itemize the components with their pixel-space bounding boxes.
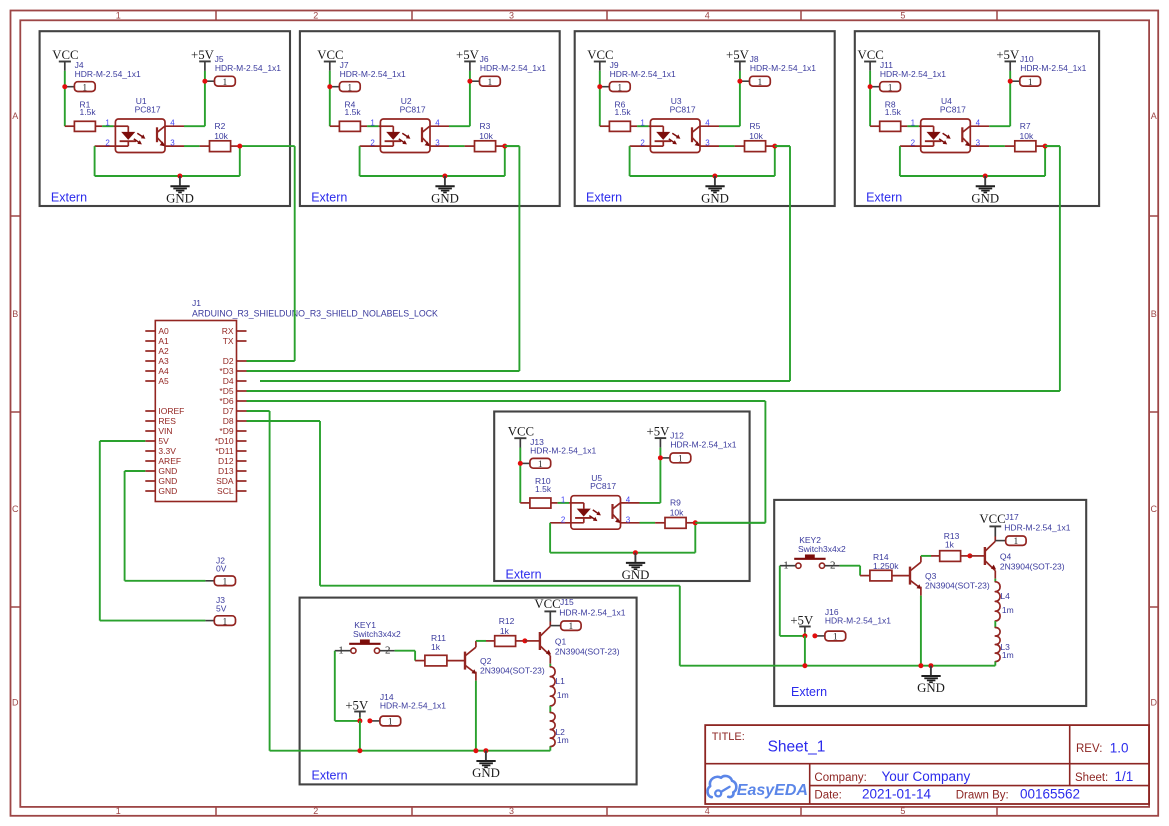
svg-text:1: 1 [116, 10, 121, 20]
svg-text:1: 1 [488, 78, 493, 88]
svg-text:*D9: *D9 [219, 426, 233, 436]
junction at GND [983, 174, 988, 179]
wire KEY1 pin 2 to R11 [395, 650, 416, 652]
resistor R1 1.5k [65, 125, 75, 127]
ground GND [485, 751, 487, 761]
wire L4 to L3 [994, 621, 996, 628]
svg-text:Company:: Company: [814, 772, 866, 784]
junction R to base node [522, 638, 527, 643]
svg-text:R12: R12 [499, 616, 515, 626]
junction J9 [597, 84, 602, 89]
junction at GND [712, 174, 717, 179]
junction J10 [1008, 79, 1013, 84]
svg-text:Switch3x4x2: Switch3x4x2 [798, 544, 846, 554]
junction R7 output node [1043, 144, 1048, 149]
optocoupler U4 PC817 [921, 119, 971, 153]
svg-text:1.5k: 1.5k [345, 107, 362, 117]
resistor R9 10k [655, 522, 665, 524]
header J16 HDR-M-2.54_1x1 pin 1 [815, 635, 825, 637]
wire R7 output [1045, 145, 1060, 147]
svg-text:5V: 5V [158, 436, 169, 446]
svg-text:Sheet_1: Sheet_1 [768, 739, 826, 756]
wire U4 pin 2 return loop [899, 146, 901, 176]
J1 pin TX [237, 340, 247, 342]
junction GND at rail [483, 748, 488, 753]
svg-text:5: 5 [900, 10, 905, 20]
svg-text:*D5: *D5 [219, 386, 233, 396]
svg-text:EasyEDA: EasyEDA [737, 782, 808, 799]
resistor R14 1.250k [860, 575, 870, 577]
wire net D3: U2/R3 output to J1 *D3 [505, 145, 520, 147]
wire VCC down to R4 [329, 71, 331, 126]
svg-text:R7: R7 [1020, 121, 1031, 131]
ground GND [444, 176, 446, 185]
wire R4 to U2 pin 1 [367, 125, 379, 127]
svg-text:TX: TX [223, 336, 234, 346]
svg-text:2N3904(SOT-23): 2N3904(SOT-23) [480, 666, 545, 676]
svg-text:Extern: Extern [791, 685, 827, 699]
svg-text:1k: 1k [431, 642, 441, 652]
svg-text:D8: D8 [223, 416, 234, 426]
wire L1 to L2 [549, 706, 551, 713]
J1 pin *D5 [237, 390, 247, 392]
svg-text:HDR-M-2.54_1x1: HDR-M-2.54_1x1 [670, 440, 736, 450]
header J4 HDR-M-2.54_1x1 pin 1 [65, 86, 75, 88]
J1 pin A4 [145, 370, 155, 372]
wire net 5V: J1 5V to J3 [100, 440, 146, 442]
svg-text:1.5k: 1.5k [615, 107, 632, 117]
connector J1 ARDUINO_R3_SHIELDUNO_R3_SHIELD_NOLABELS_LOCK [155, 321, 236, 502]
svg-text:B: B [12, 309, 18, 319]
J1 pin GND [145, 470, 155, 472]
inductor L2 1m [550, 713, 555, 747]
transistor Q1 2N3904(SOT-23) [539, 632, 541, 650]
resistor R7 10k [1005, 145, 1015, 147]
J1 pin *D3 [237, 370, 247, 372]
wire net GND: J1 GND to J2 [125, 470, 146, 472]
optocoupler U3 PC817 [650, 119, 700, 153]
junction J7 [327, 84, 332, 89]
ground GND [984, 176, 986, 185]
svg-text:1: 1 [82, 83, 87, 93]
svg-text:C: C [12, 504, 19, 514]
svg-text:Switch3x4x2: Switch3x4x2 [353, 629, 401, 639]
svg-text:A1: A1 [158, 336, 169, 346]
wire U3 pin 2 return loop [629, 146, 631, 176]
svg-text:GND: GND [917, 681, 945, 695]
svg-text:2N3904(SOT-23): 2N3904(SOT-23) [925, 581, 990, 591]
transistor Q4 2N3904(SOT-23) [984, 547, 986, 565]
svg-text:+5V: +5V [345, 698, 369, 712]
wire U1 pin 2 return loop [94, 146, 96, 176]
wire VCC down to R10 [519, 448, 521, 503]
svg-text:A0: A0 [158, 326, 169, 336]
svg-text:*D11: *D11 [215, 446, 234, 456]
header J2 0V pin 1 [205, 580, 214, 582]
svg-text:VCC: VCC [534, 597, 560, 611]
wire +5V down to U3 pin 4 [739, 71, 741, 126]
svg-text:10k: 10k [214, 131, 228, 141]
svg-text:1: 1 [223, 78, 228, 88]
J1 pin D8 [237, 420, 247, 422]
svg-text:IOREF: IOREF [158, 406, 184, 416]
Extern box driver block 1 [300, 598, 637, 785]
J1 pin VIN [145, 430, 155, 432]
svg-text:1m: 1m [1002, 605, 1014, 615]
svg-text:ARDUINO_R3_SHIELDUNO_R3_SHIELD: ARDUINO_R3_SHIELDUNO_R3_SHIELD_NOLABELS_… [192, 308, 438, 318]
svg-text:0V: 0V [216, 564, 227, 574]
wire U5 pin 2 return loop [549, 523, 551, 553]
header J11 HDR-M-2.54_1x1 pin 1 [870, 86, 880, 88]
svg-text:R9: R9 [670, 498, 681, 508]
transistor Q2 2N3904(SOT-23) [464, 652, 466, 670]
svg-text:GND: GND [158, 476, 177, 486]
wire Q4 emitter to L4 [994, 571, 996, 579]
svg-text:5V: 5V [216, 603, 227, 613]
svg-text:1: 1 [888, 83, 893, 93]
wire +5V node to rail [359, 721, 361, 751]
svg-text:TITLE:: TITLE: [712, 731, 745, 743]
junction J4 [62, 84, 67, 89]
J1 pin A5 [145, 380, 155, 382]
header J17 HDR-M-2.54_1x1 pin 1 [995, 540, 1005, 542]
svg-text:C: C [1151, 504, 1158, 514]
svg-text:PC817: PC817 [670, 105, 696, 115]
junction Q3 emitter at rail [918, 663, 923, 668]
svg-text:PC817: PC817 [590, 481, 616, 491]
svg-text:2: 2 [561, 515, 566, 524]
junction J11 [868, 84, 873, 89]
J1 pin A0 [145, 330, 155, 332]
svg-text:1: 1 [569, 622, 574, 632]
wire KEY2 pin 1 to +5V node [779, 566, 781, 636]
svg-text:GND: GND [971, 191, 999, 205]
junction J8 [737, 79, 742, 84]
wire net D8: J1 D8 to KEY2 block rail [247, 420, 321, 422]
J1 pin A1 [145, 340, 155, 342]
junction +5V at rail [802, 663, 807, 668]
svg-text:1: 1 [678, 455, 683, 465]
header J8 HDR-M-2.54_1x1 pin 1 [740, 80, 750, 82]
wire VCC down to R1 [64, 71, 66, 126]
svg-text:1m: 1m [557, 690, 569, 700]
svg-text:AREF: AREF [158, 456, 181, 466]
wire R8 to U4 pin 1 [907, 125, 919, 127]
resistor R11 1k [415, 660, 425, 662]
svg-text:1: 1 [388, 718, 393, 728]
svg-text:4: 4 [626, 495, 631, 504]
svg-text:3: 3 [976, 139, 981, 148]
svg-text:2: 2 [911, 139, 916, 148]
J1 pin RX [237, 330, 247, 332]
svg-text:RX: RX [222, 326, 234, 336]
svg-text:1: 1 [223, 617, 228, 627]
svg-text:R2: R2 [215, 121, 226, 131]
wire KEY2 pin 2 to R14 [840, 565, 861, 567]
resistor R 1k between Q2 and Q1 [486, 640, 495, 642]
svg-text:J15: J15 [560, 597, 574, 607]
ground GND [714, 176, 716, 185]
wire +5V down to U5 pin 4 [659, 448, 661, 503]
svg-text:1: 1 [1028, 78, 1033, 88]
svg-text:D2: D2 [223, 356, 234, 366]
svg-text:1/1: 1/1 [1115, 769, 1134, 784]
svg-text:1: 1 [105, 119, 110, 128]
resistor R3 10k [465, 145, 475, 147]
svg-text:SCL: SCL [217, 486, 234, 496]
wire VCC down to R6 [599, 71, 601, 126]
svg-text:2021-01-14: 2021-01-14 [862, 786, 932, 801]
wire U2 pin 3 to R3 [449, 145, 465, 147]
svg-text:1: 1 [833, 633, 838, 643]
header J12 HDR-M-2.54_1x1 pin 1 [660, 457, 670, 459]
svg-text:GND: GND [431, 191, 459, 205]
J1 pin A2 [145, 350, 155, 352]
svg-text:HDR-M-2.54_1x1: HDR-M-2.54_1x1 [825, 616, 891, 626]
svg-text:4: 4 [435, 119, 440, 128]
svg-text:GND: GND [158, 486, 177, 496]
svg-text:D: D [12, 698, 19, 708]
wire U2 pin 2 return loop [359, 146, 361, 176]
transistor Q3 2N3904(SOT-23) [909, 567, 911, 585]
svg-text:D12: D12 [218, 456, 234, 466]
svg-text:1.5k: 1.5k [885, 107, 902, 117]
header J7 HDR-M-2.54_1x1 pin 1 [330, 86, 340, 88]
junction Q2 emitter at rail [473, 748, 478, 753]
svg-text:10k: 10k [479, 131, 493, 141]
svg-text:1.5k: 1.5k [535, 484, 552, 494]
svg-text:1.5k: 1.5k [80, 107, 97, 117]
Extern box opto block 4 [855, 31, 1099, 206]
Extern box opto block 3 [575, 31, 835, 206]
svg-text:1k: 1k [945, 540, 955, 550]
junction J14 [357, 718, 362, 723]
junction at GND [177, 174, 182, 179]
svg-text:D13: D13 [218, 466, 234, 476]
wire Q3 collector to R [920, 556, 922, 562]
resistor R10 1.5k [520, 502, 530, 504]
header J15 HDR-M-2.54_1x1 pin 1 [550, 625, 560, 627]
svg-text:A: A [12, 111, 18, 121]
svg-text:1: 1 [1014, 537, 1019, 547]
svg-text:VIN: VIN [158, 426, 172, 436]
J1 pin 5V [145, 440, 155, 442]
svg-text:1: 1 [347, 83, 352, 93]
svg-text:Extern: Extern [311, 191, 347, 205]
svg-text:A3: A3 [158, 356, 169, 366]
svg-text:4: 4 [705, 806, 710, 816]
wire R6 to U3 pin 1 [637, 125, 649, 127]
svg-text:D7: D7 [223, 406, 234, 416]
svg-text:B: B [1151, 309, 1157, 319]
svg-text:1: 1 [640, 119, 645, 128]
junction R2 output node [237, 144, 242, 149]
svg-text:Q3: Q3 [925, 571, 937, 581]
wire U4 pin 3 to R7 [989, 145, 1005, 147]
inductor L4 1m [995, 582, 1000, 621]
svg-text:4: 4 [976, 119, 981, 128]
wire Q2 collector to R [475, 641, 477, 647]
wire R2 output [240, 145, 295, 147]
wire Q2 emitter down to rail [475, 672, 477, 681]
J1 pin 3.3V [145, 450, 155, 452]
svg-text:PC817: PC817 [400, 105, 426, 115]
svg-text:Q2: Q2 [480, 656, 492, 666]
junction R to base node [967, 553, 972, 558]
svg-text:1: 1 [223, 578, 228, 588]
svg-text:10k: 10k [749, 131, 763, 141]
svg-text:1.0: 1.0 [1110, 741, 1129, 756]
wire U3 pin 3 to R5 [719, 145, 735, 147]
svg-text:HDR-M-2.54_1x1: HDR-M-2.54_1x1 [480, 63, 546, 73]
ground GND [930, 666, 932, 676]
svg-text:Extern: Extern [866, 191, 902, 205]
Extern box driver block 2 [774, 500, 1086, 706]
wire +5V down to U1 pin 4 [204, 71, 206, 126]
wire R10 to U5 pin 1 [558, 502, 570, 504]
junction R3 output node [502, 144, 507, 149]
EasyEDA logo [708, 776, 737, 797]
header J14 HDR-M-2.54_1x1 pin 1 [370, 720, 380, 722]
svg-text:Q4: Q4 [1000, 552, 1012, 562]
svg-text:HDR-M-2.54_1x1: HDR-M-2.54_1x1 [75, 69, 141, 79]
svg-text:GND: GND [701, 191, 729, 205]
J1 pin D7 [237, 410, 247, 412]
junction +5V at rail [357, 748, 362, 753]
wire L3 to rail [994, 662, 996, 666]
optocoupler U5 PC817 [571, 496, 621, 530]
svg-text:HDR-M-2.54_1x1: HDR-M-2.54_1x1 [340, 69, 406, 79]
svg-text:A4: A4 [158, 366, 169, 376]
junction at GND [633, 550, 638, 555]
svg-text:Extern: Extern [51, 191, 87, 205]
wire R9 output [695, 522, 765, 524]
svg-text:L1: L1 [555, 676, 565, 686]
J1 pin IOREF [145, 410, 155, 412]
svg-text:HDR-M-2.54_1x1: HDR-M-2.54_1x1 [530, 446, 596, 456]
J1 pin GND [145, 480, 155, 482]
svg-text:R5: R5 [750, 121, 761, 131]
svg-text:HDR-M-2.54_1x1: HDR-M-2.54_1x1 [1004, 522, 1070, 532]
junction at GND [442, 174, 447, 179]
header J6 HDR-M-2.54_1x1 pin 1 [470, 80, 480, 82]
svg-text:Drawn By:: Drawn By: [956, 789, 1009, 801]
wire net D2: U1/R2 output to J1 D2 [294, 146, 296, 361]
resistor R2 10k [200, 145, 210, 147]
wire U1 pin 3 to R2 [184, 145, 200, 147]
svg-text:SDA: SDA [216, 476, 234, 486]
ground GND [634, 553, 636, 562]
J1 pin D13 [237, 470, 247, 472]
J1 pin *D6 [237, 400, 247, 402]
svg-text:Q1: Q1 [555, 637, 567, 647]
J1 pin *D10 [237, 440, 247, 442]
svg-text:*D3: *D3 [219, 366, 233, 376]
junction J5 [202, 79, 207, 84]
svg-text:3: 3 [435, 139, 440, 148]
inductor L1 1m [550, 667, 555, 706]
svg-text:1: 1 [561, 495, 566, 504]
svg-text:Extern: Extern [586, 191, 622, 205]
wire L2 to rail [549, 747, 551, 751]
svg-text:1.250k: 1.250k [873, 561, 899, 571]
svg-text:2: 2 [370, 139, 375, 148]
J1 pin A3 [145, 360, 155, 362]
svg-text:2: 2 [313, 806, 318, 816]
svg-text:HDR-M-2.54_1x1: HDR-M-2.54_1x1 [1020, 63, 1086, 73]
J1 pin SDA [237, 480, 247, 482]
wire Q1 emitter to L1 [549, 656, 551, 664]
junction J6 [467, 79, 472, 84]
svg-text:3: 3 [626, 515, 631, 524]
svg-text:PC817: PC817 [135, 105, 161, 115]
svg-text:3: 3 [509, 10, 514, 20]
J1 pin AREF [145, 460, 155, 462]
svg-text:1: 1 [538, 460, 543, 470]
svg-text:GND: GND [158, 466, 177, 476]
wire emitter rail [680, 665, 996, 667]
J1 pin RES [145, 420, 155, 422]
J1 pin *D9 [237, 430, 247, 432]
optocoupler U1 PC817 [115, 119, 165, 153]
junction J13 [518, 461, 523, 466]
svg-text:Your Company: Your Company [882, 769, 971, 784]
junction J12 [658, 455, 663, 460]
svg-text:2: 2 [640, 139, 645, 148]
svg-text:Extern: Extern [312, 769, 348, 783]
svg-text:+5V: +5V [456, 48, 480, 62]
wire emitter rail [270, 750, 551, 752]
svg-text:1k: 1k [500, 626, 510, 636]
junction J16 [802, 633, 807, 638]
svg-text:HDR-M-2.54_1x1: HDR-M-2.54_1x1 [380, 701, 446, 711]
header J10 HDR-M-2.54_1x1 pin 1 [1010, 80, 1020, 82]
svg-text:*D6: *D6 [219, 396, 233, 406]
wire U5 pin 3 to R9 [640, 522, 656, 524]
svg-text:+5V: +5V [996, 48, 1020, 62]
svg-text:4: 4 [705, 119, 710, 128]
svg-text:2N3904(SOT-23): 2N3904(SOT-23) [555, 646, 620, 656]
svg-text:1: 1 [370, 119, 375, 128]
resistor R4 1.5k [330, 125, 340, 127]
svg-text:Extern: Extern [506, 567, 542, 581]
svg-text:GND: GND [166, 191, 194, 205]
wire R3 output [505, 145, 520, 147]
svg-text:1: 1 [758, 78, 763, 88]
svg-text:3: 3 [170, 139, 175, 148]
wire R5 output [775, 145, 790, 147]
svg-text:GND: GND [622, 568, 650, 582]
wire +5V down to U4 pin 4 [1009, 71, 1011, 126]
wire net D4: U3/R5 output toward J1 D4 [775, 145, 790, 147]
svg-text:+5V: +5V [647, 425, 671, 439]
svg-text:VCC: VCC [979, 512, 1005, 526]
svg-text:2N3904(SOT-23): 2N3904(SOT-23) [1000, 561, 1065, 571]
optocoupler U2 PC817 [380, 119, 430, 153]
svg-text:R3: R3 [480, 121, 491, 131]
svg-text:1: 1 [911, 119, 916, 128]
svg-text:HDR-M-2.54_1x1: HDR-M-2.54_1x1 [880, 69, 946, 79]
svg-text:Date:: Date: [814, 789, 842, 801]
header J9 HDR-M-2.54_1x1 pin 1 [600, 86, 610, 88]
svg-text:+5V: +5V [726, 48, 750, 62]
svg-text:1: 1 [116, 806, 121, 816]
svg-text:HDR-M-2.54_1x1: HDR-M-2.54_1x1 [559, 607, 625, 617]
header J13 HDR-M-2.54_1x1 pin 1 [520, 462, 530, 464]
svg-text:00165562: 00165562 [1020, 786, 1080, 801]
wire net D5: U4/R7 output to J1 *D5 [1045, 145, 1060, 147]
header J3 5V pin 1 [205, 620, 214, 622]
